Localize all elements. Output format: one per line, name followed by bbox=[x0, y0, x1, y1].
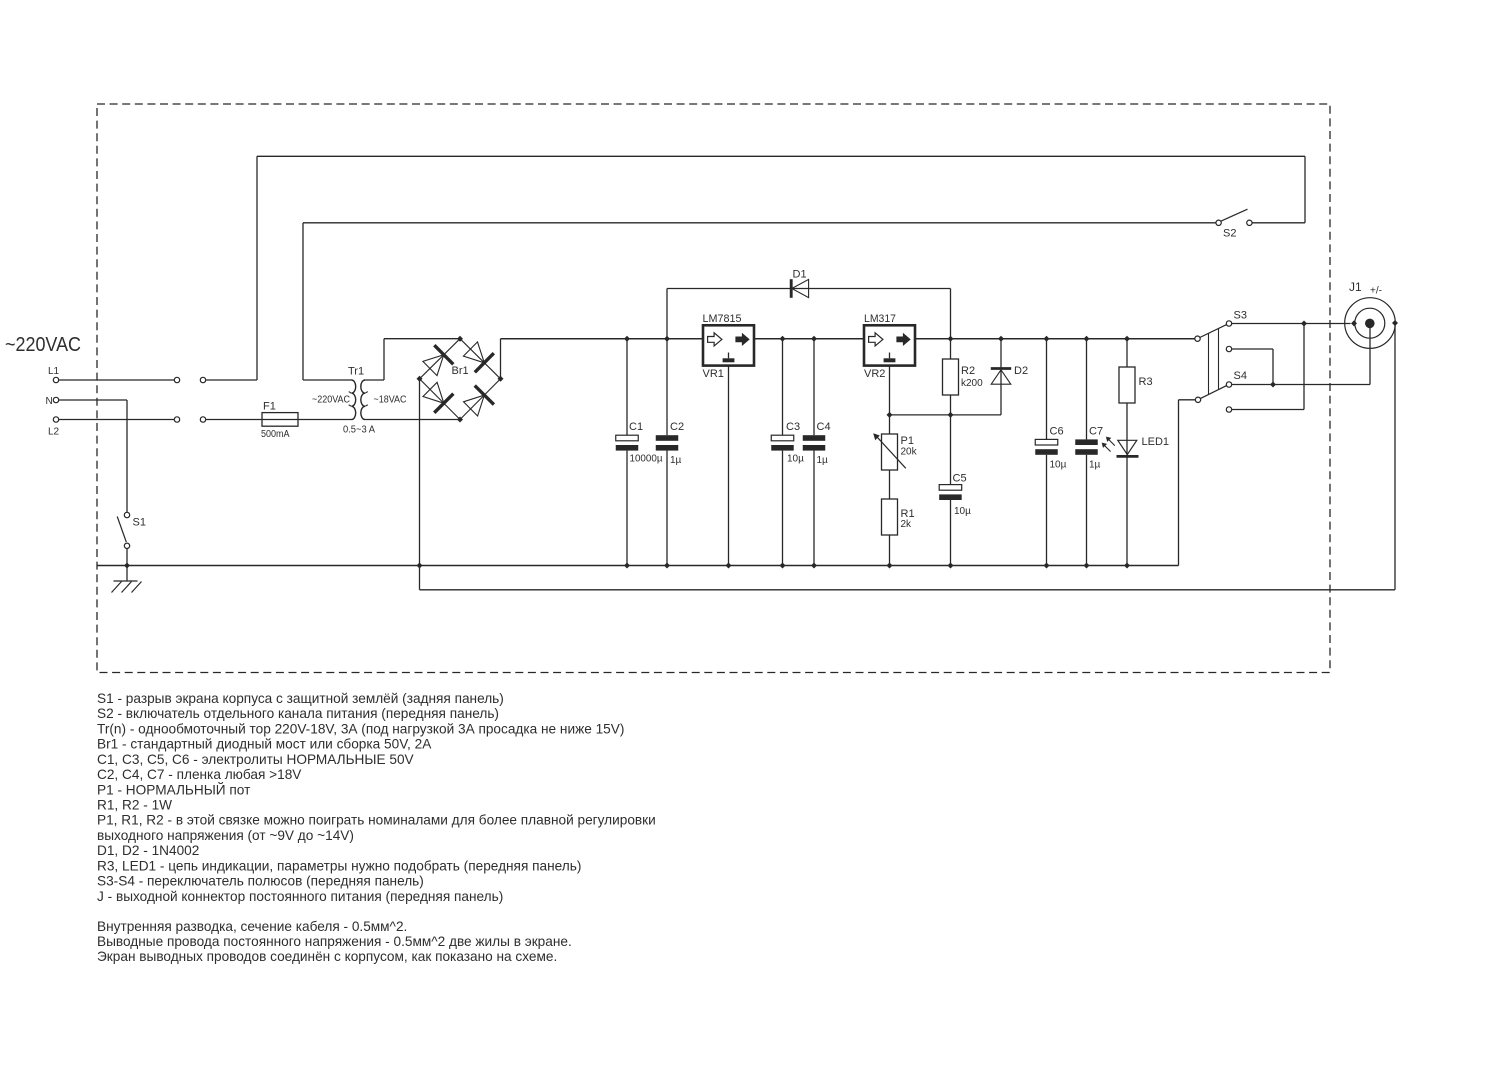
diode D1 bbox=[790, 279, 793, 298]
svg-text:S2: S2 bbox=[1223, 228, 1236, 240]
svg-text:20k: 20k bbox=[901, 446, 918, 457]
connector J1 outer bbox=[1345, 298, 1396, 349]
svg-text:LM317: LM317 bbox=[864, 313, 896, 325]
svg-text:Внутренняя разводка, сечение к: Внутренняя разводка, сечение кабеля - 0.… bbox=[97, 919, 407, 934]
svg-text:10000µ: 10000µ bbox=[630, 454, 663, 465]
wire rail junction C1 bbox=[624, 336, 630, 342]
junction S1/bus bbox=[124, 563, 130, 569]
junction rail R3 bbox=[1124, 336, 1130, 342]
bridge Br1 diode top-right bbox=[460, 339, 501, 379]
junction C4/bus bbox=[811, 563, 817, 569]
svg-text:C2, C4, C7 - пленка любая >18V: C2, C4, C7 - пленка любая >18V bbox=[97, 767, 302, 782]
transformer Tr1 primary winding bbox=[352, 380, 356, 420]
svg-text:0.5~3 A: 0.5~3 A bbox=[343, 425, 375, 436]
bridge Br1 diode top-left bbox=[420, 339, 461, 379]
junction rail D2 bbox=[998, 336, 1004, 342]
svg-text:N: N bbox=[46, 396, 53, 407]
svg-text:1µ: 1µ bbox=[670, 455, 682, 466]
wire rail Br1 to VR1 bbox=[501, 338, 704, 340]
svg-text:L1: L1 bbox=[48, 366, 60, 377]
wire rail VR1 to VR2 bbox=[754, 338, 864, 340]
svg-text:Выводные провода постоянного н: Выводные провода постоянного напряжения … bbox=[97, 934, 572, 949]
capacitor C5 10u bbox=[950, 415, 952, 485]
junction C7/bus bbox=[1084, 563, 1090, 569]
wire adj net bbox=[890, 414, 1002, 416]
svg-text:1µ: 1µ bbox=[817, 455, 829, 466]
wire S1 to bus bbox=[126, 549, 128, 566]
svg-text:Tr(n) - однообмоточный тор 220: Tr(n) - однообмоточный тор 220V-18V, 3А … bbox=[97, 721, 624, 736]
wire L1 to top loop bbox=[206, 379, 257, 381]
wire R3 to LED1 bbox=[1126, 403, 1128, 566]
wire S4 top throw to J1 pin bbox=[1232, 384, 1370, 386]
svg-text:+/-: +/- bbox=[1370, 286, 1382, 297]
junction R1/bus bbox=[887, 563, 893, 569]
wire L1 row bbox=[59, 379, 174, 381]
svg-text:C6: C6 bbox=[1050, 426, 1064, 438]
wire Br1 plus up bbox=[500, 339, 502, 379]
regulator VR2 LM317 bbox=[864, 325, 915, 365]
junction C2/bus bbox=[664, 563, 670, 569]
connector gap L2 bbox=[174, 417, 179, 422]
svg-text:J - выходной коннектор постоян: J - выходной коннектор постоянного питан… bbox=[97, 889, 503, 904]
svg-text:C1, C3, C5, C6 - электролиты Н: C1, C3, C5, C6 - электролиты НОРМАЛЬНЫЕ … bbox=[97, 752, 415, 767]
junction polarity cross bbox=[1270, 382, 1276, 388]
potentiometer P1 20k bbox=[889, 415, 891, 434]
svg-text:~220VAC: ~220VAC bbox=[5, 333, 81, 356]
junction Br1 bottom vertex bbox=[457, 417, 463, 423]
svg-text:~220VAC: ~220VAC bbox=[312, 395, 350, 406]
wire S2 to primary bbox=[303, 222, 1216, 224]
junction J1 left bbox=[1351, 320, 1357, 326]
wire R1 to bus bbox=[889, 535, 891, 566]
svg-text:S1 - разрыв экрана корпуса с з: S1 - разрыв экрана корпуса с защитной зе… bbox=[97, 691, 504, 706]
wire output return (shield) bbox=[420, 589, 1396, 591]
wire D1 branch right bbox=[950, 289, 952, 339]
svg-text:C2: C2 bbox=[670, 421, 684, 433]
switch S1 bbox=[124, 512, 129, 517]
connector J1 inner bbox=[1355, 308, 1385, 338]
svg-text:C4: C4 bbox=[817, 421, 831, 433]
wire rail junction C2 bbox=[664, 336, 670, 342]
wire bus up to S4 bbox=[1178, 400, 1180, 566]
wire rail VR2 to S3 bbox=[915, 338, 1195, 340]
junction Br1 right vertex bbox=[498, 376, 504, 382]
svg-text:D2: D2 bbox=[1014, 365, 1028, 377]
node L1 terminal bbox=[53, 377, 58, 382]
junction rail C4 bbox=[811, 336, 817, 342]
svg-text:R1, R2 - 1W: R1, R2 - 1W bbox=[97, 798, 172, 813]
svg-text:S4: S4 bbox=[1234, 370, 1247, 382]
junction C1/bus bbox=[624, 563, 630, 569]
svg-text:D1, D2 - 1N4002: D1, D2 - 1N4002 bbox=[97, 843, 199, 858]
diode D2 bbox=[1000, 339, 1002, 415]
enclosure dashed border (corpus) bbox=[97, 104, 1330, 673]
switch S4 bbox=[1195, 397, 1200, 402]
svg-text:10µ: 10µ bbox=[1050, 460, 1067, 471]
svg-text:S1: S1 bbox=[133, 517, 146, 529]
svg-text:10µ: 10µ bbox=[954, 506, 971, 517]
wire L2 row bbox=[59, 419, 174, 421]
wire P1 to R1 bbox=[889, 470, 891, 499]
svg-text:VR2: VR2 bbox=[864, 368, 885, 380]
svg-text:P1, R1, R2 - в этой связке мож: P1, R1, R2 - в этой связке можно поиграт… bbox=[97, 813, 656, 828]
wire top loop bbox=[257, 155, 1305, 157]
svg-text:L2: L2 bbox=[48, 427, 60, 438]
node N terminal bbox=[53, 397, 58, 402]
fuse F1 bbox=[262, 413, 298, 427]
connector gap L1 bbox=[174, 377, 179, 382]
svg-text:P1 - НОРМАЛЬНЫЙ пот: P1 - НОРМАЛЬНЫЙ пот bbox=[97, 782, 251, 797]
wire S3 top throw to J1 bbox=[1232, 323, 1351, 325]
junction C6/bus bbox=[1044, 563, 1050, 569]
ground chassis symbol bbox=[126, 566, 128, 582]
junction Br1 left vertex bbox=[417, 376, 423, 382]
wire ground bus bbox=[97, 565, 1179, 567]
svg-text:LM7815: LM7815 bbox=[703, 313, 742, 325]
capacitor C1 10000u bbox=[626, 339, 628, 436]
svg-text:R3: R3 bbox=[1139, 376, 1153, 388]
svg-text:~18VAC: ~18VAC bbox=[374, 395, 407, 406]
svg-text:Br1 - стандартный диодный мост: Br1 - стандартный диодный мост или сборк… bbox=[97, 737, 432, 752]
junction rail C3 bbox=[780, 336, 786, 342]
wire L2 to transformer bbox=[206, 419, 352, 421]
svg-text:S3-S4 - переключатель полюсов: S3-S4 - переключатель полюсов (передняя … bbox=[97, 874, 424, 889]
junction J1 right bbox=[1392, 320, 1398, 326]
svg-text:LED1: LED1 bbox=[1142, 436, 1170, 448]
junction rail C6 bbox=[1044, 336, 1050, 342]
resistor R3 bbox=[1126, 339, 1128, 367]
junction R2/adj wire bbox=[948, 412, 954, 418]
resistor R1 2k bbox=[882, 499, 898, 535]
svg-text:VR1: VR1 bbox=[703, 368, 724, 380]
switch S2 bbox=[1247, 220, 1252, 225]
junction C5/bus bbox=[948, 563, 954, 569]
junction VR1/bus bbox=[726, 563, 732, 569]
wire N to S1 bbox=[59, 399, 127, 401]
junction rail C7 bbox=[1084, 336, 1090, 342]
wire S4 bottom throw bbox=[1232, 409, 1304, 411]
svg-text:R2: R2 bbox=[961, 365, 975, 377]
svg-text:k200: k200 bbox=[961, 378, 983, 389]
junction Br1/bus bbox=[417, 563, 423, 569]
capacitor C4 1u bbox=[813, 339, 815, 436]
bridge Br1 diode bottom-right bbox=[460, 379, 501, 420]
op-amp U1 regulator VR1 LM7815 bbox=[703, 325, 754, 365]
switch S3 bbox=[1195, 336, 1200, 341]
wire S3 bottom throw bbox=[1232, 348, 1273, 350]
svg-text:C1: C1 bbox=[629, 421, 643, 433]
capacitor C7 1u bbox=[1086, 339, 1088, 440]
wire D1 branch left bbox=[666, 289, 668, 339]
svg-text:D1: D1 bbox=[793, 269, 807, 281]
capacitor C3 10u bbox=[782, 339, 784, 436]
capacitor C2 1u bbox=[666, 339, 668, 436]
svg-text:F1: F1 bbox=[263, 401, 276, 413]
svg-text:Br1: Br1 bbox=[452, 365, 469, 377]
transformer Tr1 secondary winding bbox=[361, 380, 365, 420]
junction C3/bus bbox=[780, 563, 786, 569]
wire Br1 minus down bbox=[419, 379, 421, 566]
svg-text:2k: 2k bbox=[901, 519, 913, 530]
switch gang linkage bbox=[1208, 334, 1210, 395]
wire secondary bottom bbox=[365, 419, 460, 421]
resistor R2 k200 bbox=[950, 339, 952, 359]
wire VR1 ground pin bbox=[728, 366, 730, 566]
svg-text:R3, LED1 - цепь индикации, пар: R3, LED1 - цепь индикации, параметры нуж… bbox=[97, 858, 581, 873]
capacitor C6 10u bbox=[1046, 339, 1048, 440]
wire bus to return jog bbox=[419, 566, 421, 590]
bridge Br1 diode bottom-left bbox=[420, 379, 461, 420]
svg-text:1µ: 1µ bbox=[1089, 460, 1101, 471]
svg-text:P1: P1 bbox=[901, 435, 914, 447]
svg-text:J1: J1 bbox=[1349, 280, 1362, 294]
wire S2 right lead bbox=[1252, 222, 1305, 224]
junction VR2-adj bbox=[887, 412, 893, 418]
svg-text:выходного напряжения (от ~9V д: выходного напряжения (от ~9V до ~14V) bbox=[97, 828, 354, 843]
LED LED1 bbox=[1118, 440, 1137, 454]
svg-text:S3: S3 bbox=[1234, 310, 1247, 322]
junction Br1 top vertex bbox=[457, 336, 463, 342]
svg-text:500mA: 500mA bbox=[261, 429, 290, 440]
svg-text:Tr1: Tr1 bbox=[348, 366, 364, 378]
wire VR2 adj pin bbox=[889, 366, 891, 415]
svg-text:C3: C3 bbox=[786, 421, 800, 433]
node L2 terminal bbox=[53, 417, 58, 422]
svg-text:Экран выводных проводов соедин: Экран выводных проводов соединён с корпу… bbox=[97, 949, 557, 964]
junction rail R2 bbox=[948, 336, 954, 342]
wire secondary top bbox=[365, 379, 384, 381]
junction LED1/bus bbox=[1124, 563, 1130, 569]
svg-text:10µ: 10µ bbox=[787, 454, 804, 465]
svg-text:C7: C7 bbox=[1089, 426, 1103, 438]
connector J1 center pin bbox=[1365, 319, 1375, 329]
junction S3-J1 wire bbox=[1301, 321, 1307, 327]
svg-text:S2 - включатель отдельного кан: S2 - включатель отдельного канала питани… bbox=[97, 706, 499, 721]
svg-text:C5: C5 bbox=[953, 473, 967, 485]
